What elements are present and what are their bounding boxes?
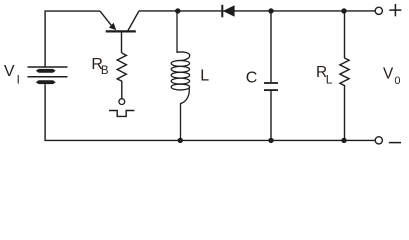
inductor L: [171, 11, 190, 140]
node dot top of capacitor: [268, 8, 273, 13]
resistor RL: [340, 11, 349, 140]
transistor Q1 (PNP, emitter from top-left): [100, 11, 139, 53]
svg-text:I: I: [17, 74, 20, 86]
wire top rail left (battery to transistor emitter): [45, 11, 100, 67]
node dot bottom of RL: [341, 138, 346, 143]
svg-text:L: L: [326, 72, 333, 86]
terminal circle at RB bottom: [119, 99, 125, 105]
wire top rail right (collector to output terminal): [139, 10, 375, 12]
label V_I: [4, 63, 20, 86]
resistor RB: [117, 53, 126, 99]
capacitor C: [264, 11, 278, 140]
label R_L: [316, 64, 333, 86]
node dot top of RL: [341, 8, 346, 13]
svg-text:L: L: [200, 68, 209, 85]
output terminal bottom (circle): [375, 137, 382, 144]
svg-text:0: 0: [394, 75, 400, 87]
plus sign: [389, 4, 401, 16]
label V_0: [383, 65, 401, 87]
minus sign: [389, 142, 401, 144]
svg-text:C: C: [246, 69, 258, 86]
pulse source symbol: [109, 111, 134, 117]
node dot bottom of capacitor: [268, 138, 273, 143]
diode D1: [222, 5, 234, 17]
svg-text:V: V: [383, 65, 394, 82]
svg-text:B: B: [101, 65, 109, 77]
wire bottom rail: [45, 84, 375, 140]
node dot bottom of inductor: [178, 138, 183, 143]
svg-text:V: V: [4, 63, 15, 80]
battery VI: [28, 67, 68, 84]
output terminal top (circle): [375, 7, 382, 14]
node dot top of inductor: [175, 8, 180, 13]
label R_B: [91, 56, 109, 77]
